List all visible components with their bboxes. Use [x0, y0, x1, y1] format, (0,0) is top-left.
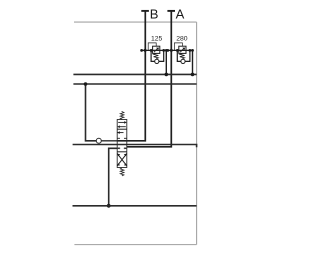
wire: valve bottom-left to tank drop	[109, 148, 118, 206]
wire: pilot ball to valve	[101, 140, 117, 142]
directional valve V1 body	[117, 120, 127, 168]
RV-A check ball	[181, 59, 185, 63]
node: junction T2/pilot	[84, 82, 88, 86]
RV-B pilot line	[148, 43, 156, 51]
V1 section divider 3	[117, 151, 127, 153]
wire: long pressure line P	[73, 145, 197, 148]
RV-B junction dots	[140, 49, 168, 76]
tank line T1	[73, 73, 196, 75]
port A terminal bar	[167, 10, 175, 12]
svg-text:A: A	[176, 6, 185, 21]
RV-B spring	[154, 53, 159, 58]
manifold outline right edge	[196, 22, 198, 245]
wire: port B vertical line	[117, 11, 145, 141]
RV-B outer drop to T1	[165, 50, 167, 74]
RV-A spring	[180, 53, 185, 58]
manifold outline top edge	[74, 21, 197, 23]
RV-A arrow in square	[180, 48, 184, 52]
RV-A valve square	[179, 46, 186, 53]
node: junction drop/T3	[107, 204, 111, 208]
RV-B check ball	[155, 59, 159, 63]
V1 section divider 1	[117, 128, 127, 130]
port B terminal bar	[141, 10, 149, 12]
directional valve V1 bottom spring	[120, 168, 124, 176]
manifold outline bottom edge	[74, 244, 196, 246]
V1 box4 X cross	[117, 154, 127, 166]
RV-B anti-cavitation loop	[151, 50, 155, 61]
V1 box3 arrow both	[117, 147, 120, 149]
RV-B main line	[142, 49, 167, 51]
RV-B arrow in square	[154, 48, 158, 52]
wire: pilot drop from T2 to valve pilot	[86, 84, 97, 141]
RV-A main line	[168, 49, 193, 51]
svg-text:B: B	[150, 6, 159, 21]
V1 box2 short mark	[117, 137, 120, 139]
RV-B valve square	[153, 46, 160, 53]
RV-A junction dots	[166, 49, 194, 76]
tank line T2	[73, 83, 196, 85]
svg-text:280: 280	[176, 35, 188, 42]
RV-A pilot line	[174, 43, 182, 51]
V1 box1 arrow right	[118, 121, 125, 123]
V1 box2 arrow left	[117, 132, 123, 134]
tank line T3	[73, 205, 197, 207]
RV-A anti-cavitation loop	[177, 50, 181, 61]
relief valve RV-A assembly	[168, 43, 193, 75]
directional valve V1 top spring	[120, 111, 124, 119]
svg-text:125: 125	[151, 35, 163, 42]
pilot ball circle	[96, 138, 101, 143]
V1 box1 arrow left	[119, 126, 126, 128]
wire: port A vertical line	[127, 11, 172, 147]
RV-A outer drop to T1	[192, 50, 194, 74]
relief valve RV-B assembly	[142, 43, 167, 75]
